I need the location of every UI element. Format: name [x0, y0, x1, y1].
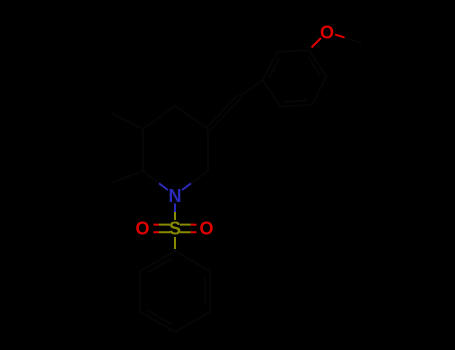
svg-text:O: O — [320, 23, 334, 43]
svg-text:N: N — [169, 186, 182, 206]
svg-text:O: O — [199, 218, 213, 238]
svg-text:O: O — [135, 218, 149, 238]
svg-text:S: S — [169, 218, 181, 238]
